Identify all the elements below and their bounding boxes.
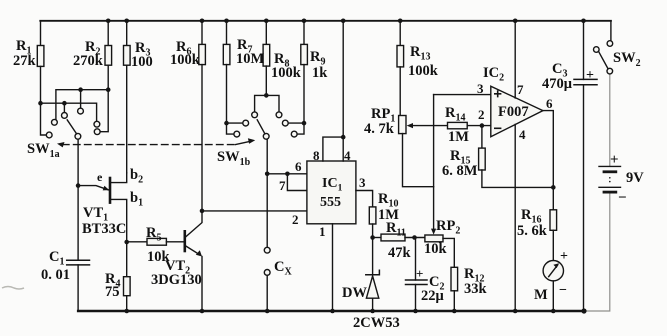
IC1 pin4 lead xyxy=(342,21,344,161)
svg-text:33k: 33k xyxy=(464,281,488,297)
svg-text:4: 4 xyxy=(344,148,351,163)
IC1 pin3 lead xyxy=(356,191,373,207)
svg-text:2: 2 xyxy=(478,107,485,122)
svg-text:100k: 100k xyxy=(408,63,439,79)
mechanical coupling dashed link xyxy=(63,144,236,146)
resistor R16 xyxy=(550,210,557,231)
IC2 pin7 wire xyxy=(514,21,516,98)
VT1 emitter xyxy=(78,186,108,190)
svg-text:BT33C: BT33C xyxy=(82,221,126,237)
resistor R2 xyxy=(107,21,109,46)
switch SW1a bus line A xyxy=(56,90,108,120)
svg-text:SW2: SW2 xyxy=(613,50,641,69)
svg-text:C1: C1 xyxy=(49,249,64,268)
meter M xyxy=(543,261,563,281)
IC2 pin3 wire xyxy=(434,94,491,96)
svg-text:6. 8M: 6. 8M xyxy=(442,163,478,179)
svg-text:470μ: 470μ xyxy=(542,76,573,92)
scan smudge xyxy=(2,287,24,290)
svg-text:R11: R11 xyxy=(386,220,406,239)
svg-text:3DG130: 3DG130 xyxy=(151,272,202,288)
svg-text:−: − xyxy=(559,283,567,298)
battery branch wire xyxy=(584,192,610,311)
svg-text:6: 6 xyxy=(546,96,553,111)
switch SW1a bus line B xyxy=(41,103,97,121)
IC2 output pin6 wire xyxy=(543,111,553,210)
VT1 base b1 lead xyxy=(110,199,127,242)
svg-text:6: 6 xyxy=(295,159,302,174)
resistor R14 xyxy=(448,122,468,128)
svg-text:DW: DW xyxy=(342,285,367,301)
svg-text:270k: 270k xyxy=(73,53,104,69)
RP1 wiper arrow xyxy=(411,125,448,127)
resistor R15 xyxy=(481,126,483,149)
capacitor C3 xyxy=(583,21,585,80)
IC1 pin8 lead xyxy=(323,137,343,161)
wire SW2 to battery xyxy=(609,74,611,166)
svg-text:+: + xyxy=(416,266,423,281)
IC2 pin4 wire xyxy=(514,124,516,311)
VT1 base b2 lead xyxy=(110,173,127,183)
wire VT2 collector to IC1 pin2 xyxy=(202,210,307,212)
svg-text:R14: R14 xyxy=(445,105,465,124)
resistor R10 xyxy=(369,207,376,224)
svg-text:555: 555 xyxy=(320,195,341,210)
UJT VT1 bar xyxy=(109,178,112,203)
svg-text:7: 7 xyxy=(279,178,286,193)
switch SW1a pole and lever xyxy=(75,133,81,139)
switch SW1a contacts xyxy=(52,119,58,125)
svg-text:9V: 9V xyxy=(626,170,644,186)
capacitor Cx test terminals xyxy=(264,247,270,253)
zener diode DW xyxy=(372,238,374,275)
battery 9V xyxy=(599,165,621,167)
IC1 pin1 lead xyxy=(332,224,334,311)
wire SW1a pole down to VT1 emitter and C1 xyxy=(77,139,79,260)
svg-text:1k: 1k xyxy=(312,65,328,81)
wire pole node to IC1 pin6 xyxy=(267,173,307,175)
resistor R1 xyxy=(40,21,42,46)
resistor R12 xyxy=(451,267,458,291)
op-amp IC2 F007 body xyxy=(491,86,543,137)
resistor R8 xyxy=(265,21,267,45)
IC1 555 body xyxy=(307,161,356,224)
RP1 bottom lead xyxy=(403,134,434,187)
resistor R11 xyxy=(373,237,381,239)
svg-text:10k: 10k xyxy=(424,241,448,257)
switch SW2 xyxy=(610,21,612,41)
transistor VT2 bar xyxy=(184,231,187,251)
svg-text:4. 7k: 4. 7k xyxy=(364,121,395,137)
svg-text:b1: b1 xyxy=(130,190,143,209)
VT2 emitter xyxy=(185,245,200,254)
svg-text:5. 6k: 5. 6k xyxy=(517,223,548,239)
svg-text:F007: F007 xyxy=(498,104,529,120)
switch SW1b pole and lever xyxy=(263,133,269,139)
svg-text:+: + xyxy=(586,68,594,83)
capacitor C2 xyxy=(415,238,417,281)
resistor R4 xyxy=(126,242,128,277)
svg-text:R13: R13 xyxy=(410,44,430,63)
svg-text:b2: b2 xyxy=(130,167,143,186)
svg-text:SW1a: SW1a xyxy=(27,141,60,160)
svg-text:22μ: 22μ xyxy=(421,288,445,304)
potentiometer RP1 body xyxy=(399,116,406,134)
svg-text:−: − xyxy=(618,190,627,206)
svg-text:75: 75 xyxy=(105,284,120,300)
svg-text:0. 01: 0. 01 xyxy=(41,267,70,283)
svg-text:SW1b: SW1b xyxy=(217,149,251,168)
svg-text:M: M xyxy=(534,287,548,303)
svg-text:CX: CX xyxy=(274,259,292,278)
svg-text:3: 3 xyxy=(477,81,484,96)
svg-text:27k: 27k xyxy=(13,53,37,69)
resistor R5 xyxy=(127,241,147,243)
svg-text:4: 4 xyxy=(519,127,526,142)
svg-text:7: 7 xyxy=(517,82,524,97)
svg-text:8: 8 xyxy=(313,148,320,163)
svg-text:+: + xyxy=(610,152,619,168)
svg-text:47k: 47k xyxy=(388,245,412,261)
wire IC1 pin7 loop xyxy=(287,174,307,191)
svg-text:2CW53: 2CW53 xyxy=(353,315,400,331)
resistor R7 xyxy=(226,21,228,45)
top supply rail xyxy=(40,20,611,22)
resistor R13 xyxy=(399,21,401,46)
bottom ground rail xyxy=(78,310,584,312)
svg-text:R5: R5 xyxy=(146,225,161,244)
svg-text:1: 1 xyxy=(319,224,326,239)
svg-text:RP2: RP2 xyxy=(436,218,460,237)
svg-text:2: 2 xyxy=(292,212,299,227)
RP2 wiper from IC2 pin3 xyxy=(433,95,435,231)
svg-text:100k: 100k xyxy=(170,52,201,68)
potentiometer RP2 body xyxy=(425,235,443,242)
svg-text:+: + xyxy=(560,249,568,264)
resistor R9 xyxy=(303,21,305,45)
switch SW1b contacts xyxy=(252,112,258,118)
svg-text:100: 100 xyxy=(131,54,153,70)
svg-text:3: 3 xyxy=(359,175,366,190)
VT2 collector xyxy=(185,211,202,238)
svg-text:e: e xyxy=(97,170,103,184)
svg-text:10M: 10M xyxy=(236,51,265,67)
wire SW1b pole down xyxy=(266,139,268,247)
resistor R6 xyxy=(201,21,203,45)
svg-text:100k: 100k xyxy=(271,65,302,81)
capacitor C1 xyxy=(67,260,90,265)
svg-text:1M: 1M xyxy=(448,129,469,145)
resistor R3 xyxy=(126,21,128,46)
svg-text:IC2: IC2 xyxy=(483,65,504,84)
